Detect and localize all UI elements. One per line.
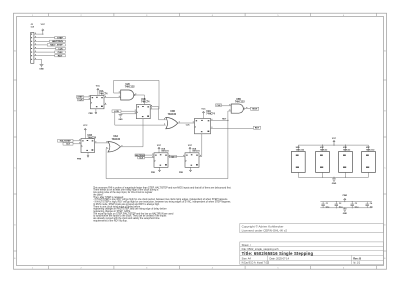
svg-text:GND: GND — [39, 69, 44, 71]
or gate U3B 74HC32 — [166, 111, 178, 129]
svg-text:Date: 2025-07-14: Date: 2025-07-14 — [270, 257, 290, 260]
power VCC (U4A) — [83, 125, 88, 138]
net label RDY (J1 pin 7) — [37, 55, 65, 58]
svg-text:C3: C3 — [355, 203, 357, 205]
svg-text:74HC32: 74HC32 — [112, 138, 121, 141]
wire U3A output up to U1B bottom pin — [121, 119, 144, 147]
svg-text:CLK: CLK — [78, 99, 83, 101]
svg-text:VCC: VCC — [201, 108, 206, 110]
net label CLK (U4A clock) — [63, 143, 81, 146]
ground (decoupling) — [343, 208, 348, 215]
svg-text:VCC: VCC — [83, 125, 88, 127]
svg-text:HALT/STEP: HALT/STEP — [60, 140, 72, 143]
flip-flop U6A 74HC74 — [185, 147, 200, 167]
flip-flop U1B 74HC74 — [136, 99, 150, 119]
ground (spare gates) — [332, 177, 337, 185]
caps VCC rail — [320, 201, 372, 202]
net label RDY — [254, 126, 261, 129]
net label CLK (J1 pin 5) — [37, 47, 65, 50]
svg-text:0.1u: 0.1u — [339, 206, 343, 208]
wire U2A Qbar to RDY label — [211, 127, 254, 129]
svg-text:GND: GND — [343, 213, 348, 215]
caps GND rail — [320, 207, 372, 208]
wire U1B Q to U3B input 1 — [150, 107, 166, 120]
svg-text:PRE: PRE — [77, 158, 82, 160]
power VCC (U6A) — [188, 145, 193, 153]
svg-text:U3B: U3B — [170, 111, 175, 113]
power VCC (J1 pin 1) — [37, 24, 45, 35]
power PWR flag (decoupling) — [343, 195, 348, 202]
power VCC (U2A) — [201, 108, 206, 118]
svg-text:74HC132: 74HC132 — [235, 101, 245, 104]
svg-text:HALT_STEP: HALT_STEP — [50, 44, 63, 47]
svg-text:74HC132: 74HC132 — [125, 86, 135, 89]
svg-text:PRE: PRE — [89, 113, 94, 115]
U6A PRE pull-up — [179, 167, 192, 174]
svg-text:74HC74: 74HC74 — [192, 149, 200, 152]
flip-flop U2A 74HC74 — [195, 110, 216, 134]
svg-text:74HC132: 74HC132 — [296, 148, 305, 151]
net label CLK (U5B input) — [216, 104, 232, 107]
svg-text:VCC: VCC — [188, 145, 193, 147]
capacitor C4 10u — [366, 202, 373, 209]
capacitor C1 0.1u — [321, 202, 329, 209]
flip-flop U1A 74HC74 — [91, 90, 109, 109]
svg-text:VCC: VCC — [157, 145, 162, 147]
svg-text:CLK: CLK — [58, 48, 63, 50]
wire U1A Q to U2C input — [104, 96, 121, 98]
net label STEP (U1A D input) — [77, 96, 91, 99]
power VCC (spare gates rail) — [332, 138, 337, 145]
svg-text:requirements of the RDY flip f: requirements of the RDY flip flop. — [93, 219, 128, 222]
svg-text:74HC74: 74HC74 — [99, 92, 108, 95]
net label HALT/STEP (U4A D) — [58, 140, 82, 143]
svg-text:Licensed under CERN-OHL-W v2: Licensed under CERN-OHL-W v2 — [242, 228, 288, 232]
net label HIGH (U5B output) — [245, 107, 259, 110]
copyright box — [240, 224, 384, 233]
power VCC (U5A) — [157, 145, 162, 153]
capacitor C3 0.1u — [351, 202, 359, 209]
svg-text:HALT/RUN: HALT/RUN — [52, 40, 63, 43]
svg-text:C4: C4 — [370, 202, 372, 205]
connector J1 — [31, 24, 35, 63]
flip-flop U5A 74HC74 — [154, 147, 169, 167]
svg-text:C2: C2 — [339, 203, 341, 205]
svg-text:74HC74: 74HC74 — [206, 113, 215, 116]
U4A PRE pull-up — [77, 153, 89, 161]
nand gate U2C 74HC132 — [121, 84, 136, 100]
spare gates VCC bus — [298, 145, 368, 146]
svg-text:RDY: RDY — [58, 56, 63, 58]
net label HALT/RUN (J1 pin 3) — [37, 40, 65, 43]
svg-text:0.1u: 0.1u — [355, 206, 359, 208]
wire U2C output to U1B — [135, 95, 144, 105]
svg-text:74HC32: 74HC32 — [168, 113, 177, 116]
title block — [240, 242, 384, 265]
svg-text:Id: 1/1: Id: 1/1 — [353, 262, 361, 265]
net label HALT/RUN (U5A D) — [135, 154, 154, 157]
wire junction down to U3A input (long return) — [106, 120, 228, 178]
svg-text:STEP: STEP — [57, 38, 63, 40]
flip-flop U4A 74HC74 — [81, 135, 97, 152]
svg-text:HIGH: HIGH — [252, 109, 258, 111]
or gate U3A 74HC32 — [108, 135, 121, 152]
wire U2A clock from U5A Q — [199, 134, 202, 157]
net label LOW (U1B D input) — [112, 110, 136, 113]
J1 pin stubs — [34, 33, 37, 60]
wire LOW label to U3B input 2 — [115, 112, 166, 125]
svg-text:C1: C1 — [326, 203, 328, 205]
svg-text:VCC: VCC — [41, 24, 46, 26]
svg-text:KiCad E.D.A. kicad 7.0.5: KiCad E.D.A. kicad 7.0.5 — [242, 262, 270, 265]
wire U5A Q to U6A D with label — [168, 155, 185, 158]
svg-text:CLK: CLK — [139, 158, 144, 160]
svg-text:Title: 6502/65816 Single Stepp: Title: 6502/65816 Single Stepping — [242, 251, 314, 256]
net label CLK (U1A clock) — [78, 98, 91, 101]
svg-text:CLK: CLK — [216, 105, 221, 107]
svg-text:74HC132: 74HC132 — [366, 148, 375, 151]
svg-text:GND: GND — [332, 183, 337, 185]
ground (J1 pin 8) — [37, 59, 44, 70]
svg-text:VCC: VCC — [332, 138, 337, 140]
svg-text:Q1: Q1 — [172, 156, 175, 158]
svg-text:VCC: VCC — [96, 85, 101, 87]
net label CLK (U5A clock) — [138, 157, 154, 160]
spare gate U2D 74HC132 — [291, 145, 305, 177]
wire U2A Q / node RDY — [211, 119, 229, 121]
power VCC (U1A) — [96, 85, 101, 95]
pin numbers — [79, 91, 247, 157]
U1A PRE pin pull-up — [89, 109, 97, 115]
capacitor C2 0.1u — [335, 202, 343, 209]
svg-text:74HC32: 74HC32 — [320, 148, 328, 151]
svg-text:Rev: B: Rev: B — [353, 257, 361, 260]
svg-text:PHI2: PHI2 — [58, 52, 64, 54]
svg-text:PWR: PWR — [343, 195, 348, 197]
svg-text:74HC74: 74HC74 — [88, 136, 97, 139]
svg-text:74HC74: 74HC74 — [161, 149, 169, 152]
U5A PRE pull-up — [151, 167, 161, 174]
svg-text:0.1u: 0.1u — [326, 206, 330, 208]
svg-text:U3A: U3A — [113, 135, 118, 138]
net label PHI2 (J1 pin 6) — [37, 51, 65, 54]
svg-text:Size: A4: Size: A4 — [242, 257, 252, 260]
note text — [93, 186, 231, 222]
spare gate U3C 74HC32 — [316, 145, 330, 177]
svg-text:10u: 10u — [370, 206, 373, 208]
svg-text:CLK: CLK — [66, 144, 71, 146]
U1A spare output stub — [104, 104, 107, 106]
wire U4A Q to U3A input — [95, 142, 109, 144]
feedback wire loop U1B to U2C — [114, 80, 159, 109]
svg-text:Sheet: /: Sheet: / — [242, 243, 251, 247]
spare gate U3D 74HC32 — [339, 145, 353, 177]
ground (U1B clear) — [119, 114, 137, 121]
net label HALT_STEP (J1 pin 4) — [37, 44, 65, 47]
svg-text:GND: GND — [119, 119, 124, 121]
wire junction to U5B input — [228, 111, 231, 120]
wire U3B output to U2A D — [178, 123, 195, 127]
spare gates GND rail — [298, 177, 368, 178]
svg-text:74HC74: 74HC74 — [141, 101, 150, 104]
svg-text:RDY: RDY — [255, 128, 260, 130]
net label STEP (J1 pin 2) — [37, 37, 65, 40]
svg-text:74HC32: 74HC32 — [343, 148, 351, 151]
nand gate U5B 74HC132 — [231, 99, 245, 113]
spare gate U5C 74HC132 — [362, 145, 376, 177]
